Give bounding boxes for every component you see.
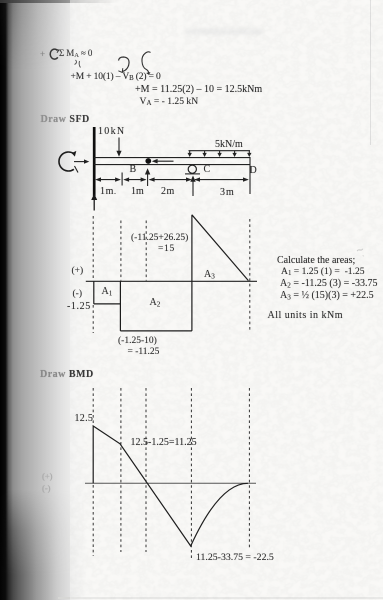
reaction arrow VB (147, 173, 149, 187)
distributed load arrows (190, 151, 250, 154)
SFD zero axis (86, 280, 257, 282)
area A2 equation (280, 279, 378, 289)
handwritten curl over 10(1) (119, 57, 130, 72)
faint bottom edge line (58, 597, 383, 599)
SFD value =15 (158, 245, 175, 255)
SFD jump value (-11.25+26.25) (131, 234, 188, 244)
dimension line segment 1m (wall to tick) (97, 179, 120, 181)
area A3 equation (280, 291, 374, 301)
wall support A (93, 127, 96, 196)
SFD outline A1 left edge (94, 215, 249, 331)
roller base line (185, 173, 200, 175)
SFD dashed guide x=93 upper (93, 216, 250, 333)
note heading Calculate the areas (277, 256, 355, 266)
reaction arrow VC (192, 181, 194, 197)
equation line 1 sum of moments about A (59, 49, 92, 60)
faint ghost smudge top (185, 28, 263, 35)
distributed load 5kN/m line (189, 150, 251, 152)
faint stray pen marks right edge (355, 245, 365, 257)
dimension line segment 2m (B to C) (150, 179, 191, 181)
beam right end vertical (249, 157, 251, 194)
SFD area label A2 (150, 298, 161, 308)
distributed load label 5kN/m (215, 140, 243, 150)
A2 bottom (120, 330, 191, 332)
applied moment arc at wall (59, 152, 74, 171)
A2 left edge (119, 281, 121, 331)
units note (268, 311, 344, 321)
dimension label 1m first span (100, 187, 117, 197)
bottom-left darker scan corner (0, 490, 85, 600)
dimension line segment 3m (C to D) (195, 179, 248, 181)
SFD negative sign label (73, 290, 83, 300)
SFD value = -11.25 (128, 348, 160, 358)
load label 10kN (98, 127, 125, 137)
faint right vertical line (370, 0, 371, 145)
top edge dark line (0, 0, 120, 3)
reaction arrow VA below wall (93, 199, 95, 211)
roller support circle at C (188, 165, 196, 173)
node B label (130, 165, 137, 175)
BMD faint positive sign (42, 472, 52, 481)
handwritten curl over VB (142, 52, 151, 74)
handwritten squiggle under line 1 MA (75, 60, 81, 68)
BMD curve (93, 426, 248, 546)
hinge dot at B (145, 158, 151, 164)
horizontal arrow into wall (74, 161, 86, 163)
beam top line (94, 157, 250, 159)
equation line 3 (135, 85, 262, 95)
SFD value (-1.25-10) (118, 337, 157, 347)
moment symbol tail tick (75, 166, 79, 173)
10kN load arrow (118, 138, 120, 153)
SFD value -1.25 (67, 302, 91, 312)
dimension label 3m (220, 188, 235, 198)
SFD area label A1 (102, 287, 113, 297)
heading Draw SFD (41, 115, 90, 125)
dimension label 2m (161, 187, 175, 197)
moment curl symbol at line 1 (50, 49, 59, 59)
A3 hypotenuse (192, 215, 249, 281)
left scan shadow gradient (0, 0, 92, 600)
equation line 4 (140, 97, 199, 108)
top-left scan corner smudge (0, 0, 85, 70)
node D label (250, 166, 257, 176)
BMD faint negative sign (42, 484, 51, 493)
SFD positive sign label (72, 267, 84, 277)
heading Draw BMD (40, 370, 94, 380)
area A1 equation (281, 267, 365, 278)
BMD zero axis (85, 482, 256, 484)
BMD value 11.25-33.75 = -22.5 (196, 553, 274, 563)
A3 vertical jump at C (191, 215, 193, 331)
SFD area label A3 (204, 270, 215, 280)
left arrow on beam (156, 160, 174, 162)
BMD value 12.5-1.25=11.25 (131, 438, 197, 448)
BMD value 12.5 (75, 414, 94, 424)
node C label (204, 165, 211, 175)
BMD dashed guides (93, 388, 249, 558)
equation line 2 (71, 73, 161, 83)
A1 bottom (94, 303, 121, 305)
dimension tick (121, 173, 123, 186)
dimension line segment 1m (tick to B) (125, 179, 146, 181)
equation line 1 plus sign (40, 50, 45, 59)
beam bottom line (94, 164, 250, 166)
dimension label 1m second span (131, 187, 144, 197)
